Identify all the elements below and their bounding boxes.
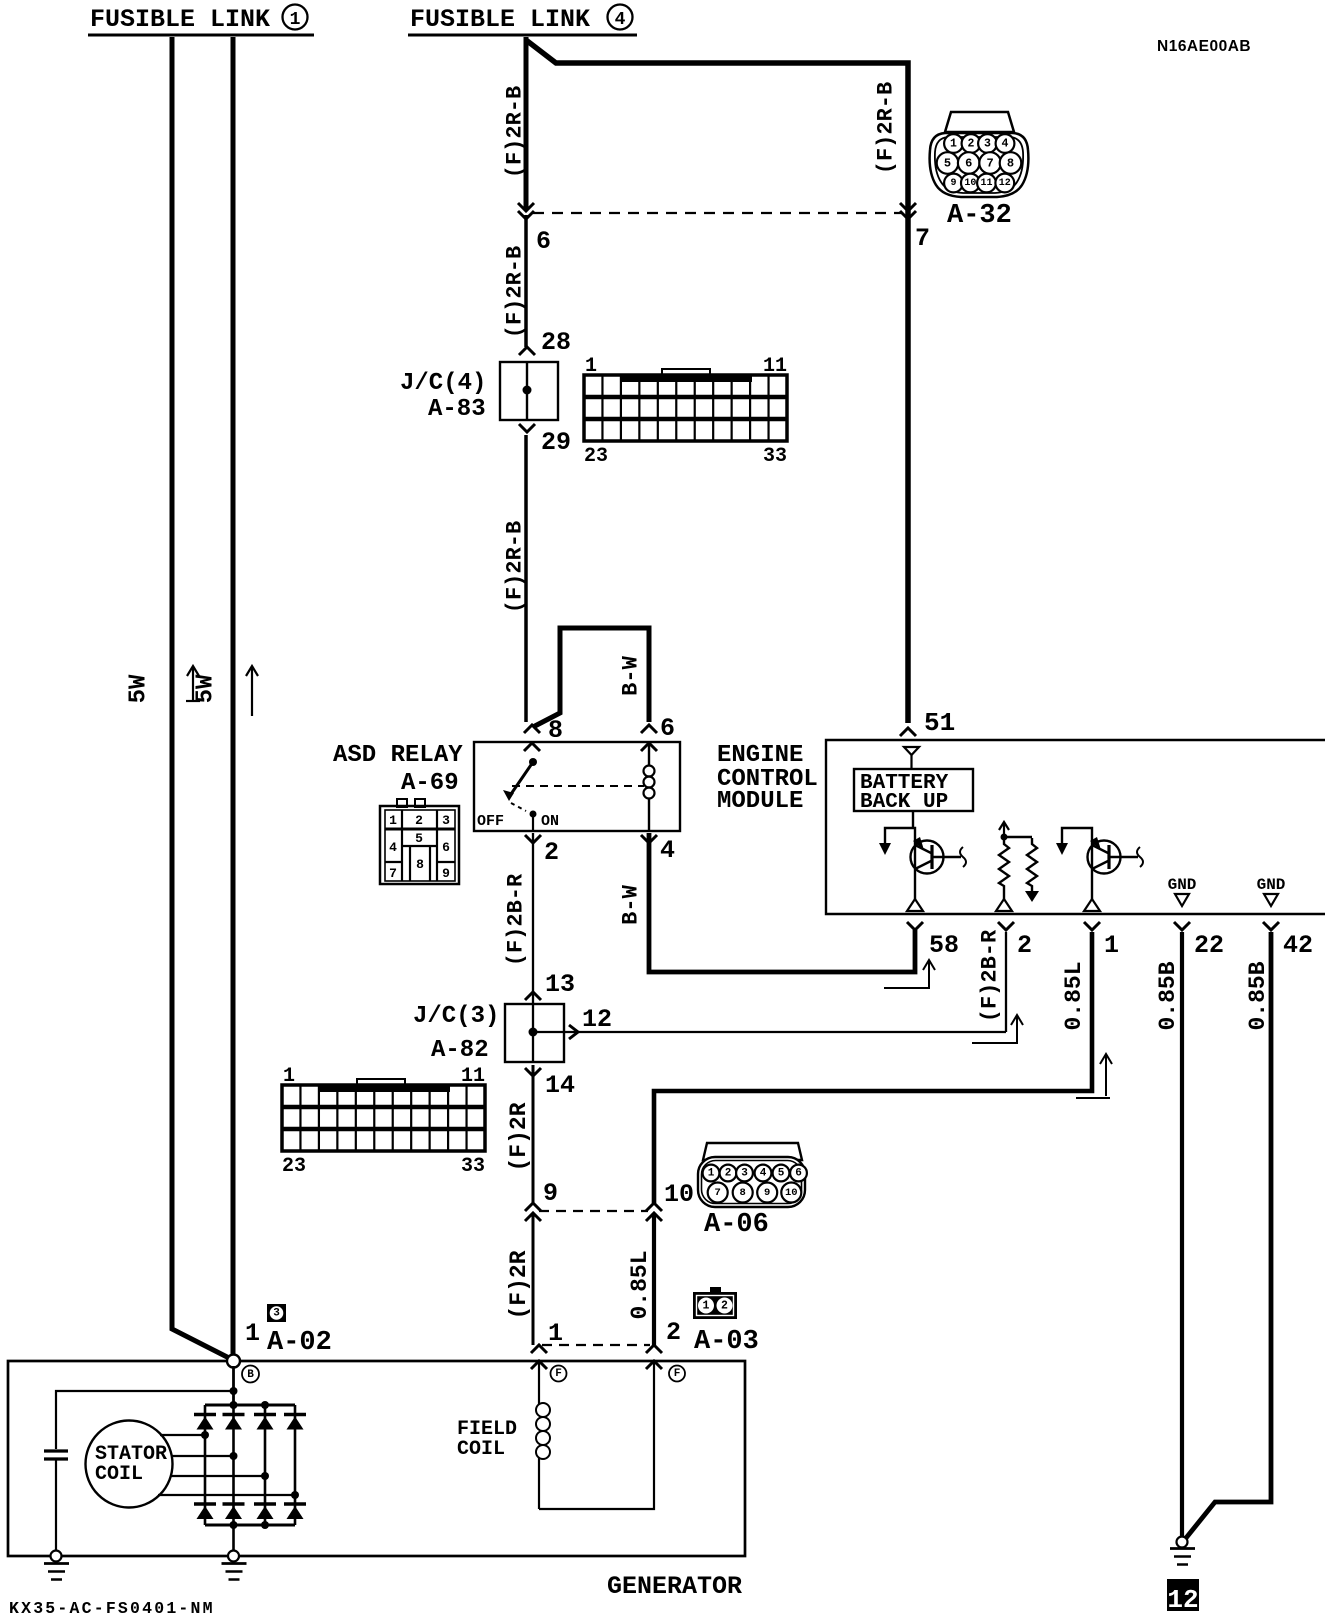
svg-text:8: 8 — [740, 1187, 746, 1199]
diode D3 top — [254, 1413, 276, 1417]
svg-text:J/C(3): J/C(3) — [413, 1003, 499, 1030]
relay switch common node — [529, 758, 537, 766]
svg-text:GENERATOR: GENERATOR — [607, 1572, 742, 1601]
wire from A-32 to J/C(4) — [524, 215, 528, 347]
svg-text:9: 9 — [950, 178, 956, 189]
wire A-06 pin 9 to generator pin 1 (F)2R — [532, 1213, 535, 1345]
capacitor C1 — [44, 1449, 68, 1452]
connector arrow at ECM pin 1 — [1084, 922, 1100, 930]
fusible link 1 bus bar — [88, 34, 314, 37]
ground circle right — [1177, 1537, 1188, 1548]
field coil winding — [538, 1361, 540, 1404]
connector arrow at ECM pin 42 — [1263, 922, 1279, 930]
wire through J/C(4) — [526, 361, 528, 421]
diode D5 bottom — [194, 1502, 216, 1506]
ECM pin 51 terminal triangle — [904, 747, 919, 755]
svg-text:10: 10 — [964, 178, 976, 189]
stator wire 3 — [170, 1475, 265, 1477]
connector arrow at ECM pin 2 — [998, 922, 1014, 930]
ECM Q2 emitter terminal triangle — [1084, 899, 1100, 911]
rectifier column 4 — [294, 1405, 297, 1525]
svg-text:29: 29 — [541, 428, 571, 457]
svg-text:1: 1 — [1104, 931, 1119, 960]
diode D4 top — [284, 1413, 306, 1417]
connector arrows at A-32 pin 6 — [518, 203, 534, 211]
connector arrows at relay pin 6 — [641, 725, 657, 733]
svg-text:1: 1 — [950, 138, 957, 151]
field coil return wire — [539, 1361, 654, 1509]
svg-text:2: 2 — [725, 1168, 732, 1180]
engine control module box — [826, 740, 1325, 914]
wire relay pin 2 to J/C(3) (F)2B-R — [532, 833, 534, 1003]
svg-text:A-69: A-69 — [401, 770, 459, 797]
svg-text:A-06: A-06 — [704, 1210, 769, 1240]
splice arrow at pin 1 corner — [1105, 1056, 1107, 1096]
svg-text:(F)2R-B: (F)2R-B — [503, 86, 528, 178]
connector arrows at A-06 pin 9 — [525, 1203, 541, 1211]
svg-text:KX35-AC-FS0401-NM: KX35-AC-FS0401-NM — [9, 1599, 215, 1618]
svg-text:8: 8 — [548, 716, 563, 745]
in-line connector A-32 dashed link — [533, 212, 902, 214]
svg-text:2: 2 — [1017, 931, 1032, 960]
svg-text:OFF: OFF — [477, 813, 504, 830]
resistor R1 — [1004, 836, 1032, 838]
svg-text:4: 4 — [615, 10, 626, 30]
connector arrows at A-03 pin 2 — [646, 1345, 662, 1353]
connector arrow at relay pin 4 — [641, 835, 657, 843]
svg-text:5: 5 — [778, 1168, 785, 1180]
connector A-69 face — [397, 799, 407, 807]
stator coil circle — [86, 1421, 173, 1508]
svg-text:B: B — [247, 1369, 254, 1381]
svg-text:23: 23 — [584, 445, 608, 468]
direction arrow on left 5W wire — [192, 668, 194, 701]
battery back up box — [854, 769, 973, 811]
svg-text:51: 51 — [924, 708, 955, 738]
junction dot capacitor tap — [230, 1387, 238, 1395]
svg-text:FUSIBLE LINK: FUSIBLE LINK — [90, 5, 270, 34]
wire ECM pin 42 down 0.85B — [1186, 932, 1271, 1538]
svg-text:1: 1 — [703, 1300, 710, 1313]
wire to capacitor — [56, 1391, 234, 1449]
svg-text:7: 7 — [986, 157, 993, 171]
svg-text:7: 7 — [715, 1187, 721, 1199]
svg-text:3: 3 — [442, 813, 450, 828]
svg-text:13: 13 — [545, 970, 575, 999]
junction block J/C(3) box — [505, 1004, 564, 1062]
generator box — [8, 1361, 745, 1556]
svg-text:9: 9 — [543, 1179, 558, 1208]
relay coil — [648, 742, 650, 766]
svg-text:11: 11 — [763, 355, 787, 378]
stator wire 4 — [158, 1494, 295, 1496]
connector arrows at A-32 pin 7 — [900, 203, 916, 211]
svg-text:(F)2R-B: (F)2R-B — [874, 82, 899, 174]
diode D8 bottom — [284, 1502, 306, 1506]
resistor R2 — [1027, 838, 1037, 891]
node B circle — [227, 1355, 240, 1368]
svg-text:12: 12 — [582, 1005, 612, 1034]
ground symbol right — [1170, 1547, 1195, 1550]
svg-text:A-32: A-32 — [947, 201, 1012, 231]
connector arrows at A-06 pin 10 — [646, 1203, 662, 1211]
wire from fusible link 1 right (5W) to node B — [231, 37, 236, 1356]
diode D2 top — [223, 1413, 245, 1417]
svg-text:1: 1 — [245, 1319, 260, 1348]
wire ECM pin 22 down 0.85B — [1180, 932, 1184, 1537]
connector A-82 pin grid — [357, 1079, 405, 1087]
relay switch dashed link to coil — [512, 785, 644, 787]
connector arrow at pin 13 — [525, 992, 541, 1000]
svg-text:A-83: A-83 — [428, 396, 486, 423]
svg-text:(F)2R-B: (F)2R-B — [503, 521, 528, 613]
wire ECM pin 2 down (F)2B-R — [1005, 932, 1007, 1032]
svg-text:1: 1 — [708, 1168, 715, 1180]
svg-text:6: 6 — [795, 1168, 802, 1180]
connector arrow at ECM pin 58 — [907, 922, 923, 930]
wire J/C(3) pin 12 to ECM pin 2 — [533, 1031, 1006, 1033]
svg-text:6: 6 — [660, 714, 675, 743]
ECM R1 terminal triangle — [996, 899, 1012, 911]
relay ON contact — [530, 811, 537, 818]
svg-text:4: 4 — [760, 1168, 767, 1180]
terminal B label — [242, 1366, 259, 1383]
rectifier column 1 — [204, 1405, 207, 1525]
wire B-W loop pin 8 to pin 6 — [533, 628, 649, 727]
svg-text:6: 6 — [442, 840, 450, 855]
wire branch to ECM pin 51 (F)2R-B — [526, 40, 908, 723]
svg-text:(F)2R-B: (F)2R-B — [503, 246, 528, 338]
svg-text:58: 58 — [929, 931, 959, 960]
svg-text:14: 14 — [545, 1071, 575, 1100]
svg-text:9: 9 — [764, 1187, 770, 1199]
splice arrow at pin 2 corner — [1016, 1017, 1018, 1042]
connector arrows at A-03 pin 1 — [531, 1345, 547, 1353]
ground symbol left — [44, 1562, 69, 1565]
svg-text:7: 7 — [915, 224, 930, 253]
svg-text:BACK UP: BACK UP — [860, 791, 948, 814]
wire capacitor to ground — [55, 1460, 57, 1552]
svg-text:GND: GND — [1168, 876, 1197, 894]
svg-text:1: 1 — [389, 813, 397, 828]
svg-text:11: 11 — [980, 178, 992, 189]
svg-text:3: 3 — [273, 1308, 280, 1320]
svg-text:(F)2R: (F)2R — [506, 1250, 532, 1319]
svg-text:(F)2B-R: (F)2B-R — [504, 873, 529, 966]
rectifier column 2 — [232, 1405, 235, 1525]
svg-text:42: 42 — [1283, 931, 1313, 960]
wire node B to rectifier — [232, 1366, 235, 1405]
ground symbol generator — [222, 1562, 247, 1565]
wire A-06 pin 10 to A-03 pin 2 0.85L — [652, 1213, 656, 1345]
connector A-03 face — [710, 1287, 721, 1293]
svg-text:33: 33 — [461, 1155, 485, 1178]
svg-text:ENGINE: ENGINE — [717, 742, 803, 769]
svg-text:FUSIBLE LINK: FUSIBLE LINK — [410, 5, 590, 34]
svg-text:A-02: A-02 — [267, 1328, 332, 1358]
connector arrows at relay pin 8 — [524, 725, 540, 733]
svg-text:N16AE00AB: N16AE00AB — [1157, 38, 1251, 55]
svg-text:MODULE: MODULE — [717, 788, 803, 815]
junction dot in J/C(4) — [523, 386, 532, 395]
rectifier top bus — [205, 1404, 295, 1407]
svg-text:2: 2 — [415, 813, 423, 828]
wire fusible link 4 down (F)2R-B — [524, 37, 529, 209]
wire J/C(4) to ASD relay pin 8 — [524, 435, 528, 722]
fusible link 4 bus bar — [408, 34, 637, 37]
ground circle generator — [228, 1551, 239, 1562]
svg-text:6: 6 — [536, 227, 551, 256]
svg-text:A-03: A-03 — [694, 1327, 759, 1357]
svg-text:J/C(4): J/C(4) — [400, 370, 486, 397]
svg-text:4: 4 — [1002, 138, 1009, 151]
terminal F label right — [669, 1366, 685, 1382]
wire J/C(3) to A-06 pin 9 (F)2R — [532, 1065, 535, 1203]
svg-text:4: 4 — [389, 840, 397, 855]
svg-text:10: 10 — [785, 1187, 798, 1199]
stator wire 1 — [160, 1434, 205, 1436]
svg-text:ASD RELAY: ASD RELAY — [333, 742, 463, 769]
svg-text:1: 1 — [283, 1065, 295, 1088]
svg-text:5W: 5W — [193, 674, 220, 703]
connector arrow at pin 29 — [519, 424, 535, 432]
svg-text:2: 2 — [721, 1300, 728, 1313]
ECM Q1 emitter terminal triangle — [907, 899, 923, 911]
connector arrow at ECM pin 22 — [1174, 922, 1190, 930]
connector A-32 face — [945, 112, 1014, 132]
diode D7 bottom — [254, 1502, 276, 1506]
svg-text:4: 4 — [660, 836, 675, 865]
diode D6 bottom — [223, 1502, 245, 1506]
page reference 12 — [1167, 1579, 1199, 1611]
transistor Q1 (relay driver) — [885, 828, 915, 899]
svg-text:COIL: COIL — [457, 1438, 505, 1461]
connector arrow at relay pin 2 — [525, 835, 541, 843]
svg-text:0.85B: 0.85B — [1245, 961, 1271, 1030]
pull-up arrow above resistors — [1003, 824, 1005, 837]
svg-text:0.85L: 0.85L — [1061, 961, 1087, 1030]
svg-text:23: 23 — [282, 1155, 306, 1178]
svg-text:10: 10 — [664, 1180, 694, 1209]
svg-text:2: 2 — [666, 1318, 681, 1347]
junction block J/C(4) box — [500, 362, 558, 420]
connector A-83 pin grid — [662, 369, 710, 377]
connector A-06 face — [703, 1143, 802, 1160]
svg-text:1: 1 — [548, 1319, 563, 1348]
wire ECM pin 1 down 0.85L — [654, 932, 1092, 1203]
svg-text:28: 28 — [541, 328, 571, 357]
svg-text:0.85B: 0.85B — [1155, 961, 1181, 1030]
svg-text:A-82: A-82 — [431, 1037, 489, 1064]
svg-text:GND: GND — [1257, 876, 1286, 894]
svg-text:(F)2B-R: (F)2B-R — [978, 929, 1003, 1022]
wire through J/C(3) — [532, 1003, 534, 1063]
svg-text:1: 1 — [290, 10, 301, 30]
svg-text:B-W: B-W — [619, 884, 644, 924]
stator wire 2 — [171, 1455, 234, 1457]
connector arrow at pin 12 — [569, 1025, 578, 1039]
svg-text:9: 9 — [442, 866, 450, 881]
wire from fusible link 1 left (5W) to node B — [172, 37, 233, 1360]
terminal F label left — [551, 1366, 567, 1382]
svg-text:33: 33 — [763, 445, 787, 468]
relay switch arm — [509, 762, 533, 797]
svg-text:F: F — [555, 1368, 562, 1380]
ground circle left — [51, 1551, 62, 1562]
ASD relay A-69 box — [474, 742, 680, 831]
diode D1 top — [194, 1413, 216, 1417]
rectifier column 3 — [264, 1405, 267, 1525]
svg-text:12: 12 — [999, 178, 1011, 189]
svg-text:22: 22 — [1194, 931, 1224, 960]
junction dot in J/C(3) — [529, 1028, 538, 1037]
svg-text:6: 6 — [965, 157, 972, 171]
svg-text:5W: 5W — [126, 674, 153, 703]
in-line connector A-03 dashed link — [542, 1344, 650, 1346]
connector icon 3 at A-02 — [267, 1304, 286, 1322]
wire rectifier to ground — [232, 1525, 235, 1552]
svg-text:2: 2 — [968, 138, 975, 151]
svg-text:7: 7 — [389, 866, 397, 881]
rectifier bottom bus — [205, 1524, 295, 1527]
wire relay pin 4 B-W to ECM pin 58 — [649, 833, 915, 972]
svg-text:2: 2 — [544, 838, 559, 867]
splice arrow at pin 58 corner — [928, 962, 930, 987]
svg-text:F: F — [674, 1368, 681, 1380]
in-line connector A-06 dashed link — [539, 1210, 648, 1212]
transistor Q2 (lamp driver) — [1062, 828, 1092, 899]
svg-text:ON: ON — [541, 813, 559, 830]
svg-text:12: 12 — [1167, 1585, 1198, 1615]
svg-text:3: 3 — [984, 138, 991, 151]
svg-text:COIL: COIL — [95, 1463, 143, 1486]
svg-text:3: 3 — [741, 1168, 748, 1180]
connector arrow at ECM pin 51 — [900, 728, 916, 736]
svg-text:0.85L: 0.85L — [627, 1250, 653, 1319]
svg-text:5: 5 — [944, 157, 951, 171]
direction arrow on right 5W wire — [251, 668, 253, 716]
svg-text:1: 1 — [585, 355, 597, 378]
wire BBU to transistor Q1 — [912, 811, 914, 829]
svg-text:B-W: B-W — [619, 655, 644, 695]
svg-text:8: 8 — [1007, 157, 1014, 171]
svg-text:8: 8 — [416, 857, 424, 872]
connector arrow at pin 28 — [519, 347, 535, 355]
svg-text:(F)2R: (F)2R — [506, 1102, 532, 1171]
connector arrow at pin 14 — [525, 1068, 541, 1076]
svg-text:5: 5 — [415, 831, 423, 846]
svg-text:11: 11 — [461, 1065, 485, 1088]
